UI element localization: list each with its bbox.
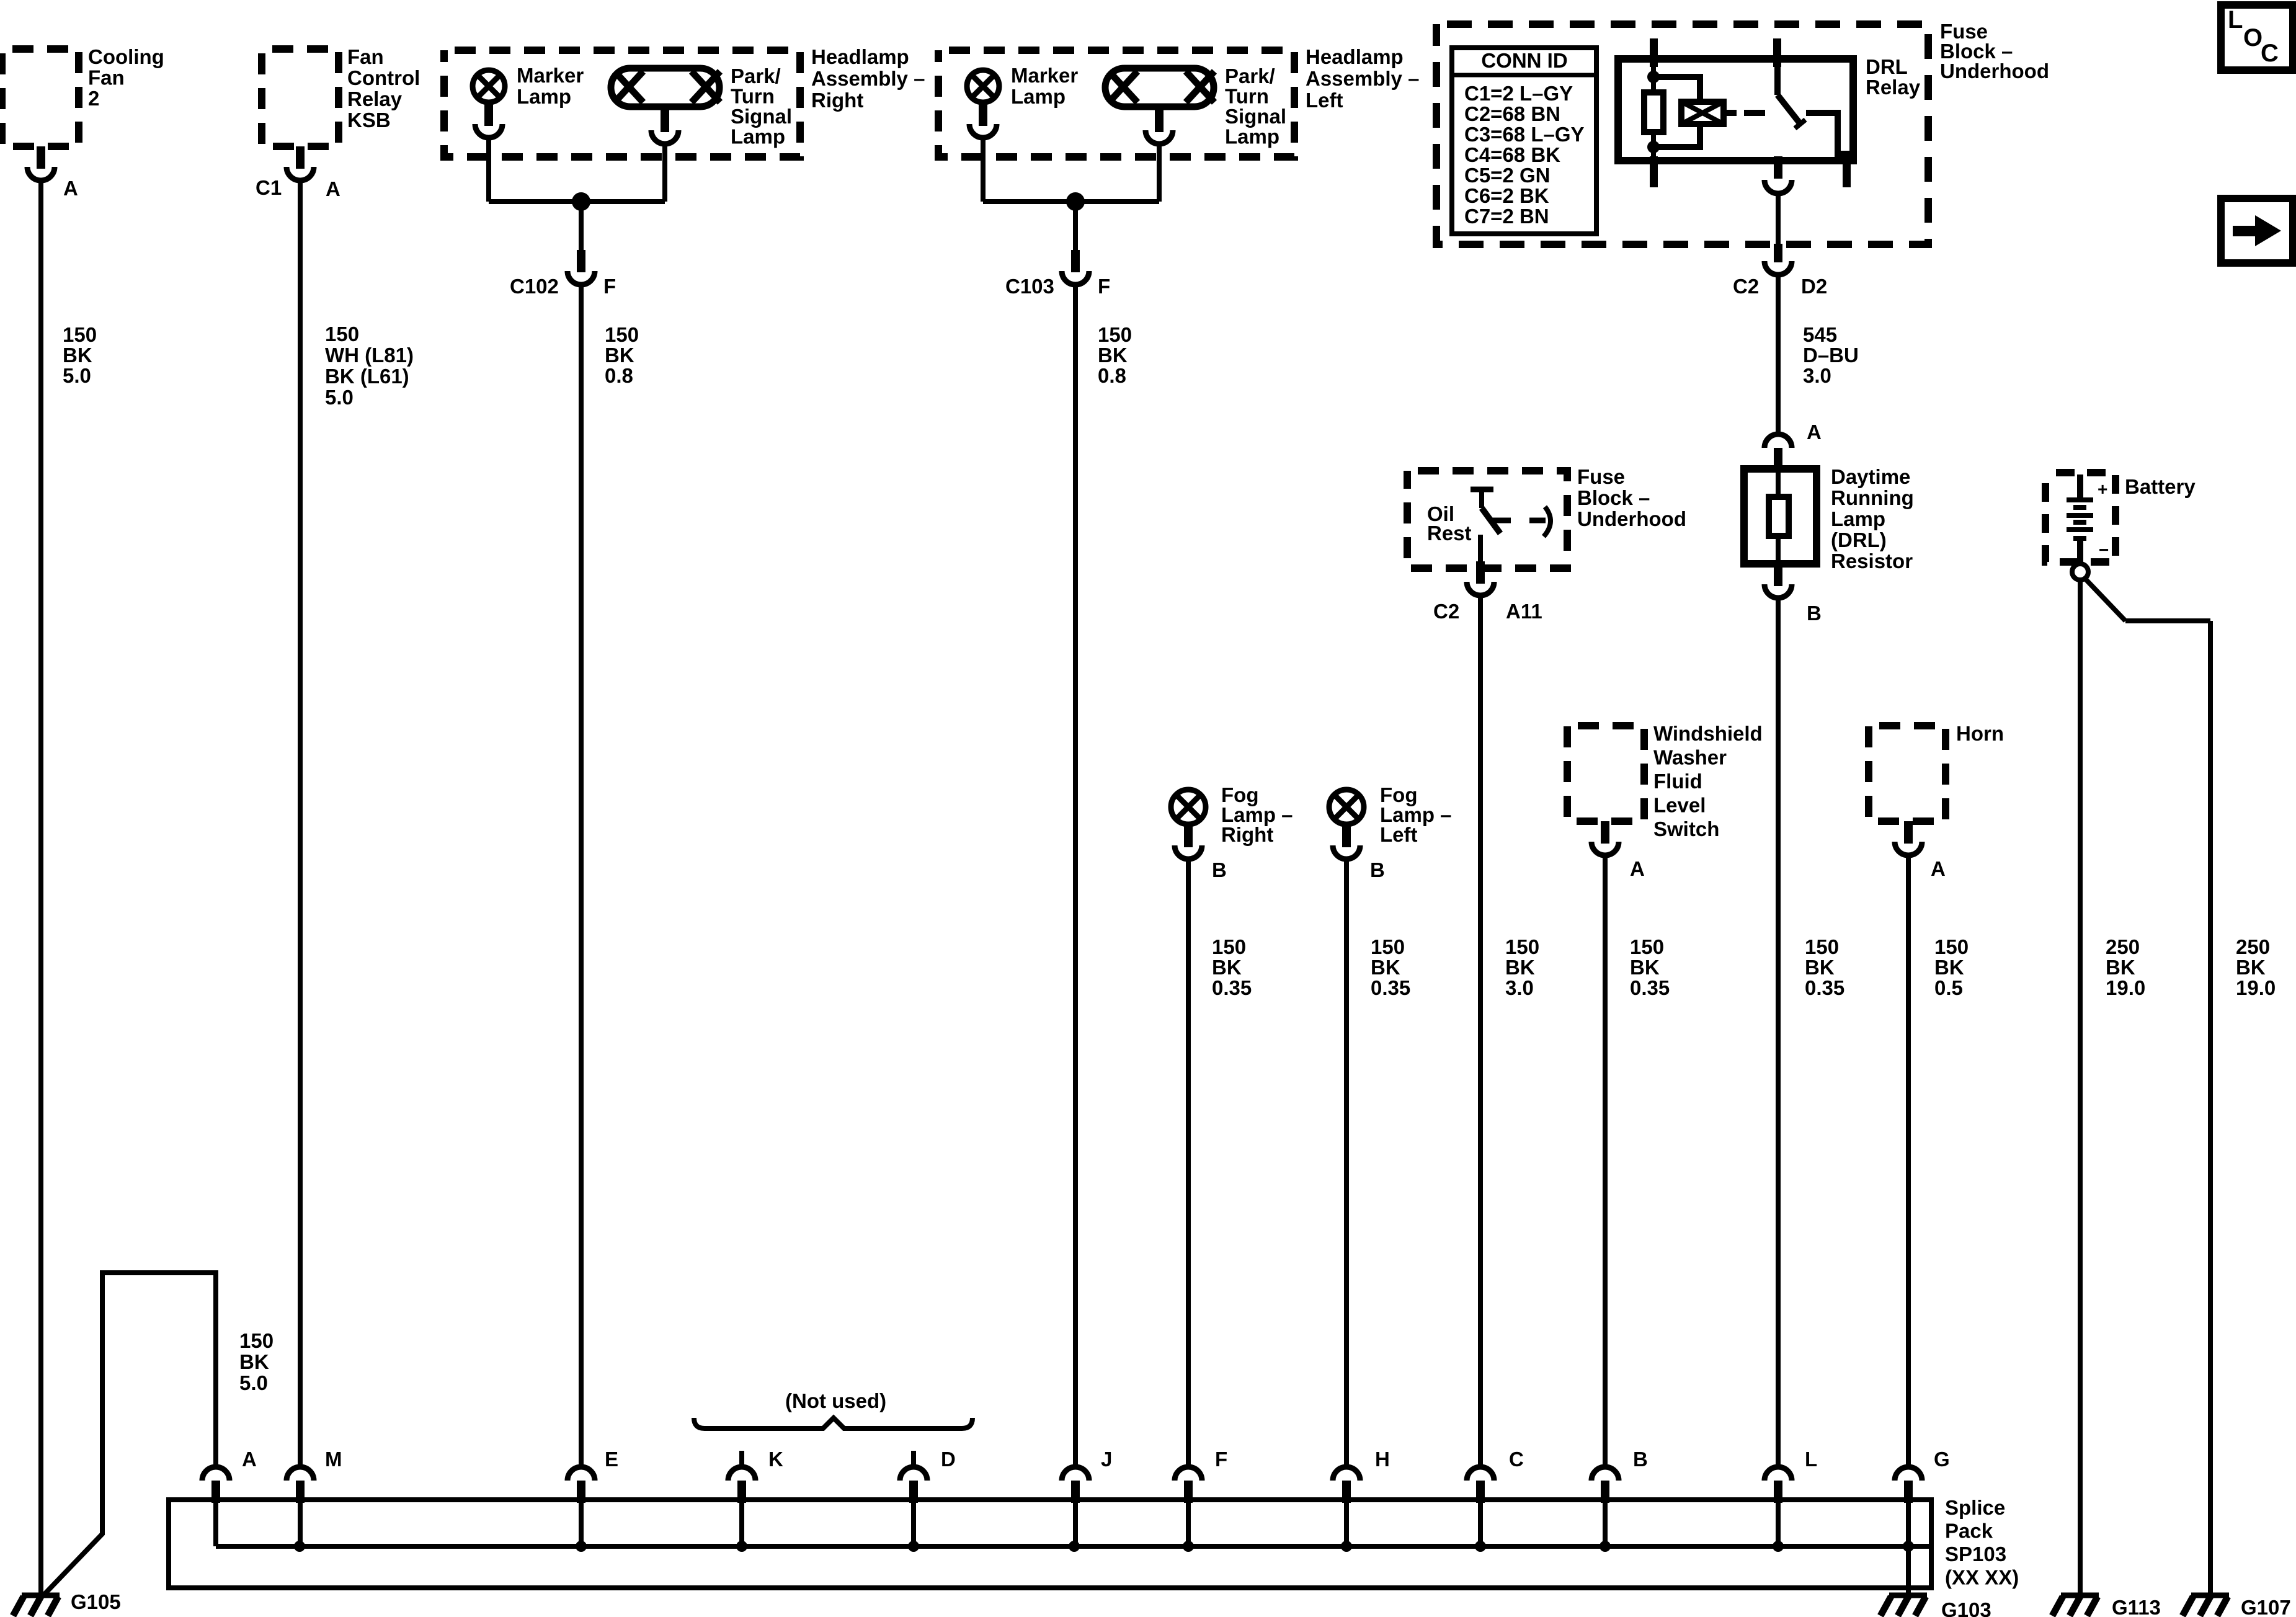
svg-text:150: 150 [1371,935,1405,958]
svg-text:C3=68 L–GY: C3=68 L–GY [1464,123,1585,146]
svg-text:5.0: 5.0 [325,386,354,409]
svg-text:Horn: Horn [1956,722,2004,745]
svg-text:Left: Left [1380,823,1418,846]
svg-text:Fluid: Fluid [1653,770,1702,793]
svg-text:(XX XX): (XX XX) [1945,1566,2019,1589]
svg-text:O: O [2243,24,2263,51]
svg-text:D: D [941,1448,956,1471]
svg-text:C4=68 BK: C4=68 BK [1464,143,1560,166]
svg-text:Daytime: Daytime [1831,465,1910,488]
svg-text:Left: Left [1306,89,1343,112]
svg-text:A: A [1931,857,1946,880]
svg-text:BK: BK [239,1350,269,1373]
svg-text:Resistor: Resistor [1831,550,1913,572]
svg-text:Washer: Washer [1653,746,1727,769]
svg-text:150: 150 [1934,935,1969,958]
svg-text:F: F [1215,1448,1227,1471]
svg-text:SP103: SP103 [1945,1543,2006,1566]
svg-text:Headlamp: Headlamp [811,45,909,68]
svg-text:3.0: 3.0 [1803,364,1831,387]
svg-text:Lamp: Lamp [1011,85,1066,108]
svg-text:Turn: Turn [731,85,775,108]
svg-text:3.0: 3.0 [1505,976,1534,999]
svg-text:B: B [1212,858,1227,881]
svg-text:Relay: Relay [347,87,403,110]
svg-text:250: 250 [2236,935,2270,958]
svg-text:G: G [1934,1448,1950,1471]
svg-text:0.35: 0.35 [1805,976,1844,999]
svg-text:F: F [603,275,616,298]
svg-text:G113: G113 [2112,1596,2161,1617]
svg-text:BK: BK [1098,344,1128,367]
svg-text:E: E [605,1448,618,1471]
svg-text:Control: Control [347,66,420,89]
svg-text:Cooling: Cooling [88,45,164,68]
svg-text:250: 250 [2106,935,2140,958]
svg-text:C2: C2 [1733,275,1759,298]
svg-text:B: B [1633,1448,1648,1471]
svg-text:150: 150 [325,323,359,345]
svg-text:A: A [1807,421,1822,443]
svg-text:Block –: Block – [1577,486,1650,509]
svg-text:K: K [768,1448,783,1471]
svg-text:G107: G107 [2241,1596,2291,1617]
svg-text:CONN ID: CONN ID [1481,49,1567,72]
svg-text:BK: BK [1212,956,1242,979]
svg-text:B: B [1807,602,1822,625]
svg-text:Running: Running [1831,486,1914,509]
svg-text:BK: BK [1371,956,1400,979]
svg-text:A: A [63,177,78,200]
svg-text:Assembly –: Assembly – [1306,67,1419,90]
svg-text:+: + [2098,479,2107,499]
svg-text:C6=2 BK: C6=2 BK [1464,184,1549,207]
svg-text:C: C [1509,1448,1524,1471]
svg-text:Right: Right [1221,823,1273,846]
svg-text:BK: BK [1934,956,1964,979]
svg-text:Park/: Park/ [1225,65,1275,87]
svg-text:150: 150 [63,323,97,346]
svg-text:Lamp: Lamp [517,85,571,108]
svg-text:BK: BK [2236,956,2266,979]
svg-text:545: 545 [1803,323,1837,346]
svg-text:BK: BK [1630,956,1660,979]
svg-text:Underhood: Underhood [1577,507,1686,530]
svg-text:A: A [242,1448,257,1471]
svg-text:Lamp: Lamp [1831,507,1885,530]
svg-text:2: 2 [88,87,99,110]
svg-text:Underhood: Underhood [1940,60,2049,82]
svg-text:WH (L81): WH (L81) [325,344,414,367]
svg-text:(Not used): (Not used) [785,1389,886,1412]
svg-text:BK: BK [63,344,92,367]
svg-text:(DRL): (DRL) [1831,528,1887,551]
svg-text:150: 150 [239,1329,274,1352]
svg-text:C1=2 L–GY: C1=2 L–GY [1464,82,1573,105]
svg-text:C2=68 BN: C2=68 BN [1464,102,1560,125]
svg-text:−: − [2099,540,2109,559]
svg-text:F: F [1098,275,1110,298]
svg-text:Lamp: Lamp [1225,125,1279,148]
svg-text:Splice: Splice [1945,1496,2005,1519]
svg-text:Windshield: Windshield [1653,722,1763,745]
svg-text:DRL: DRL [1866,55,1908,78]
svg-text:C2: C2 [1433,600,1459,623]
svg-text:C103: C103 [1005,275,1054,298]
svg-text:150: 150 [1805,935,1839,958]
svg-text:BK (L61): BK (L61) [325,365,409,388]
svg-text:Turn: Turn [1225,85,1269,108]
svg-text:BK: BK [1505,956,1535,979]
svg-text:C7=2 BN: C7=2 BN [1464,205,1549,228]
svg-text:0.8: 0.8 [605,364,633,387]
svg-text:G103: G103 [1941,1598,1991,1617]
svg-text:BK: BK [1805,956,1835,979]
svg-text:M: M [325,1448,342,1471]
svg-text:Relay: Relay [1866,76,1921,99]
svg-text:A: A [326,177,340,200]
svg-text:5.0: 5.0 [63,364,91,387]
svg-text:G105: G105 [71,1590,121,1613]
svg-text:0.35: 0.35 [1212,976,1252,999]
svg-text:Lamp: Lamp [731,125,785,148]
svg-text:C102: C102 [510,275,559,298]
svg-text:Marker: Marker [517,64,584,87]
svg-text:Headlamp: Headlamp [1306,45,1404,68]
svg-text:Signal: Signal [731,105,792,128]
svg-text:Switch: Switch [1653,817,1719,840]
svg-text:Signal: Signal [1225,105,1286,128]
svg-text:L: L [2228,6,2243,33]
svg-text:Rest: Rest [1427,522,1472,545]
svg-text:150: 150 [1630,935,1664,958]
svg-text:150: 150 [1505,935,1539,958]
svg-text:C5=2 GN: C5=2 GN [1464,164,1550,187]
svg-text:Park/: Park/ [731,65,781,87]
svg-text:BK: BK [2106,956,2135,979]
svg-text:Level: Level [1653,794,1706,817]
svg-text:Marker: Marker [1011,64,1078,87]
svg-text:H: H [1375,1448,1390,1471]
svg-text:Fuse: Fuse [1577,465,1625,488]
svg-text:150: 150 [1212,935,1246,958]
svg-text:A: A [1630,857,1645,880]
svg-text:0.35: 0.35 [1630,976,1670,999]
svg-text:19.0: 19.0 [2106,976,2145,999]
svg-text:Battery: Battery [2125,475,2196,498]
svg-text:J: J [1101,1448,1112,1471]
svg-text:D–BU: D–BU [1803,344,1859,367]
svg-text:Fan: Fan [88,66,125,89]
svg-text:BK: BK [605,344,634,367]
svg-text:B: B [1370,858,1385,881]
svg-text:0.5: 0.5 [1934,976,1963,999]
svg-text:KSB: KSB [347,109,391,131]
svg-text:5.0: 5.0 [239,1371,268,1394]
svg-text:C: C [2261,40,2279,67]
svg-text:A11: A11 [1506,600,1542,623]
svg-text:C1: C1 [256,176,282,199]
svg-text:0.8: 0.8 [1098,364,1126,387]
svg-text:Assembly –: Assembly – [811,67,925,90]
svg-text:150: 150 [1098,323,1132,346]
svg-text:0.35: 0.35 [1371,976,1410,999]
svg-text:Fan: Fan [347,45,384,68]
svg-text:Right: Right [811,89,863,112]
svg-text:150: 150 [605,323,639,346]
svg-text:L: L [1805,1448,1817,1471]
svg-text:Pack: Pack [1945,1520,1993,1543]
svg-text:19.0: 19.0 [2236,976,2276,999]
svg-text:D2: D2 [1801,275,1827,298]
